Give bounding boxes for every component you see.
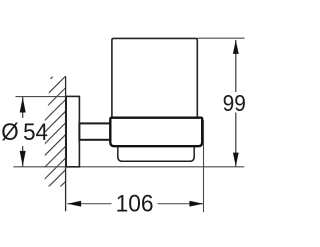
holder ring xyxy=(110,118,202,147)
dim 106 right extension line xyxy=(203,120,205,212)
wall hatching xyxy=(0,74,173,190)
dim baseline bottom extension line xyxy=(14,166,245,168)
dim 99 line upper segment xyxy=(235,40,237,92)
dim Ø54 line lower segment xyxy=(22,146,24,166)
mounting arm xyxy=(79,123,110,139)
dim 99 upper arrow xyxy=(233,40,239,54)
dim 99 lower arrow xyxy=(233,153,239,167)
svg-text:106: 106 xyxy=(116,190,154,217)
rosette wall plate xyxy=(66,96,79,166)
dim 106 left arrow xyxy=(67,201,81,207)
svg-text:99: 99 xyxy=(223,90,246,116)
wall hatch stub dot xyxy=(51,77,53,79)
dim 106 line right segment xyxy=(158,203,204,205)
wall surface line xyxy=(65,76,67,211)
dim 99 line lower segment xyxy=(235,113,237,167)
glass base below ring xyxy=(118,145,194,161)
dim 106 line left segment xyxy=(67,203,111,205)
dim Ø54 line upper segment xyxy=(22,97,24,118)
dim Ø54 lower arrow xyxy=(20,151,26,166)
svg-text:Ø 54: Ø 54 xyxy=(1,119,48,146)
dim 106 right arrow xyxy=(189,201,203,207)
glass tumbler xyxy=(112,38,197,117)
dim Ø54 upper arrow xyxy=(20,97,26,112)
dim Ø54 top extension line xyxy=(16,96,67,98)
dim 99 top extension line xyxy=(198,37,245,39)
